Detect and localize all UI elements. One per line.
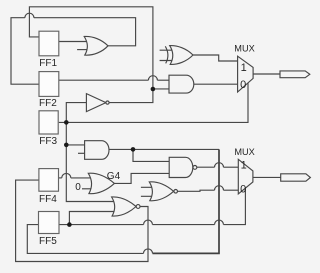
svg-text:0: 0	[240, 184, 246, 196]
mux MUX1	[238, 56, 254, 92]
nand-gate NAND1	[169, 157, 193, 177]
and-gate AND2	[85, 141, 109, 160]
svg-text:0: 0	[240, 79, 246, 91]
wire hop over x=219	[215, 186, 224, 191]
wire top feedback loop: inverter out to FF1 D	[29, 7, 152, 103]
inverter U1	[86, 94, 106, 112]
or-gate OR1	[84, 36, 108, 55]
svg-text:G4: G4	[107, 171, 121, 182]
wire NOR4 out feedback to FF4 D	[16, 180, 148, 261]
wire	[224, 189, 239, 191]
wire AND1 out to MUX1 input 0	[194, 83, 238, 85]
wire	[157, 79, 170, 81]
svg-text:FF4: FF4	[39, 194, 57, 205]
wire AND2 out to FF5 D	[109, 148, 219, 150]
wire FF4 Q to G4 input	[59, 177, 62, 179]
wire G4 constant 0 stub	[82, 188, 91, 190]
wire	[153, 224, 215, 226]
wire FF2 Q to AND1 input	[59, 79, 149, 81]
wire	[224, 166, 239, 168]
output port pin1	[280, 71, 310, 78]
wire	[71, 177, 90, 179]
mux MUX2	[238, 159, 253, 194]
flip-flop FF2	[39, 72, 59, 97]
or-gate G4	[88, 173, 114, 193]
wire hop over x=66.3	[62, 173, 71, 178]
svg-text:0: 0	[75, 182, 81, 193]
wire MUX1 select from FF3 Q net	[59, 83, 248, 123]
output port pin2	[281, 174, 311, 181]
wire hop over x=29.4	[25, 13, 34, 18]
nor-gate NOR3	[149, 182, 173, 201]
junction node dots	[64, 87, 155, 227]
node FF3 Q	[64, 120, 69, 125]
wire AND1 lower input from junction	[153, 88, 170, 90]
svg-text:FF2: FF2	[39, 98, 57, 109]
wire branch from AND2 out to NAND input	[133, 149, 171, 161]
wire vertical feed to FF5	[153, 149, 220, 253]
wire branch to AND2 input	[66, 144, 86, 146]
wire node branch up to inverter input	[66, 103, 86, 123]
svg-text:1: 1	[241, 62, 247, 74]
wire hop over x=148	[144, 220, 153, 225]
svg-text:1: 1	[241, 159, 247, 171]
svg-text:FF5: FF5	[39, 236, 57, 247]
wire OR1 output loop to FF2 D	[34, 18, 136, 46]
node to AND2	[64, 143, 69, 148]
xor-gate XOR1	[165, 46, 168, 63]
wire	[11, 18, 39, 85]
svg-text:MUX: MUX	[234, 147, 254, 157]
wire hop over x=152.9	[148, 76, 157, 81]
wire XOR1 out to MUX1 input 1	[193, 55, 238, 61]
labels	[39, 58, 121, 247]
wire MUX1 out to output port	[253, 73, 280, 75]
wire FF5 Q to MUX2 select	[59, 224, 144, 226]
wire hop over x=219	[215, 220, 224, 225]
wire FF5 branch to NOR4 lower input	[69, 212, 118, 225]
wire FF1 Q to OR1 input	[59, 41, 90, 43]
wire AND2 lower input stub	[78, 152, 87, 154]
wire G4 out to NAND lower input	[114, 173, 170, 183]
node FF5 Q	[67, 222, 72, 227]
wire	[224, 188, 246, 224]
nor-gate NOR4	[112, 197, 137, 216]
flip-flop FF4	[39, 169, 59, 192]
wire NAND out to MUX2 input 1	[197, 166, 215, 168]
wire hop over x=219	[215, 163, 224, 168]
wire MUX2 out to output port	[253, 176, 281, 178]
wire NOR3 input stubs	[141, 187, 154, 196]
wire vertical FF3 net down to NOR4 input	[66, 122, 118, 201]
svg-text:MUX: MUX	[234, 43, 254, 53]
node inverter net to AND1	[151, 87, 156, 92]
wire	[27, 225, 143, 254]
svg-text:FF1: FF1	[39, 58, 57, 69]
wire OR1 lower input stub	[77, 49, 90, 51]
flip-flop FF5	[39, 212, 60, 234]
and-gate AND1	[169, 75, 194, 93]
wire NOR3 out to MUX2 input 0	[178, 190, 215, 191]
wire hop over x=148	[144, 249, 153, 254]
flip-flop FF3	[39, 111, 58, 134]
wire XOR1 input stubs	[160, 50, 173, 60]
svg-text:FF3: FF3	[39, 136, 57, 147]
node AND2 out	[131, 147, 136, 152]
flip-flop FF1	[39, 31, 59, 56]
